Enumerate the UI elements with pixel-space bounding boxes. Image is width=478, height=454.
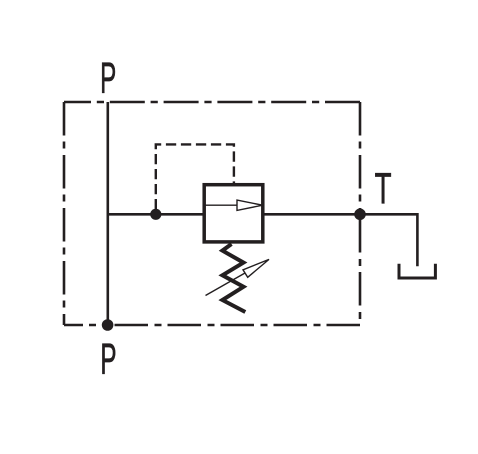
port label P (top): [100, 53, 116, 103]
enclosure boundary right edge upper part (dash-dot): [359, 102, 362, 214]
pilot line (dashed): [156, 144, 234, 214]
tank symbol: [399, 264, 435, 278]
enclosure boundary right edge lower part (dash-dot): [359, 214, 362, 325]
port label P (bottom): [100, 334, 116, 384]
svg-text:P: P: [100, 334, 116, 384]
port label T: [375, 164, 392, 213]
wire: P vertical line: [107, 102, 110, 325]
junction dot (pilot tap): [150, 209, 161, 220]
valve internal flow line: [204, 204, 237, 206]
enclosure boundary bottom edge left part (dash-dot): [64, 324, 107, 327]
spring (adjustable): [222, 244, 245, 312]
junction dot (P bottom on boundary): [102, 319, 114, 331]
valve body V1: [204, 185, 263, 242]
enclosure boundary left edge (dash-dot): [63, 102, 66, 325]
junction dot (T port on boundary): [354, 209, 366, 221]
adjustment arrow head: [243, 259, 269, 277]
svg-text:T: T: [375, 164, 392, 213]
valve internal flow arrow: [237, 200, 263, 210]
wire: main horizontal line left of valve: [108, 213, 204, 216]
wire: main horizontal line right of valve to tank drop: [263, 214, 417, 266]
enclosure boundary top edge (dash-dot): [64, 101, 360, 104]
svg-text:P: P: [100, 53, 116, 103]
enclosure boundary bottom edge right part (dash-dot): [107, 324, 360, 327]
adjustment arrow shaft: [206, 261, 267, 296]
